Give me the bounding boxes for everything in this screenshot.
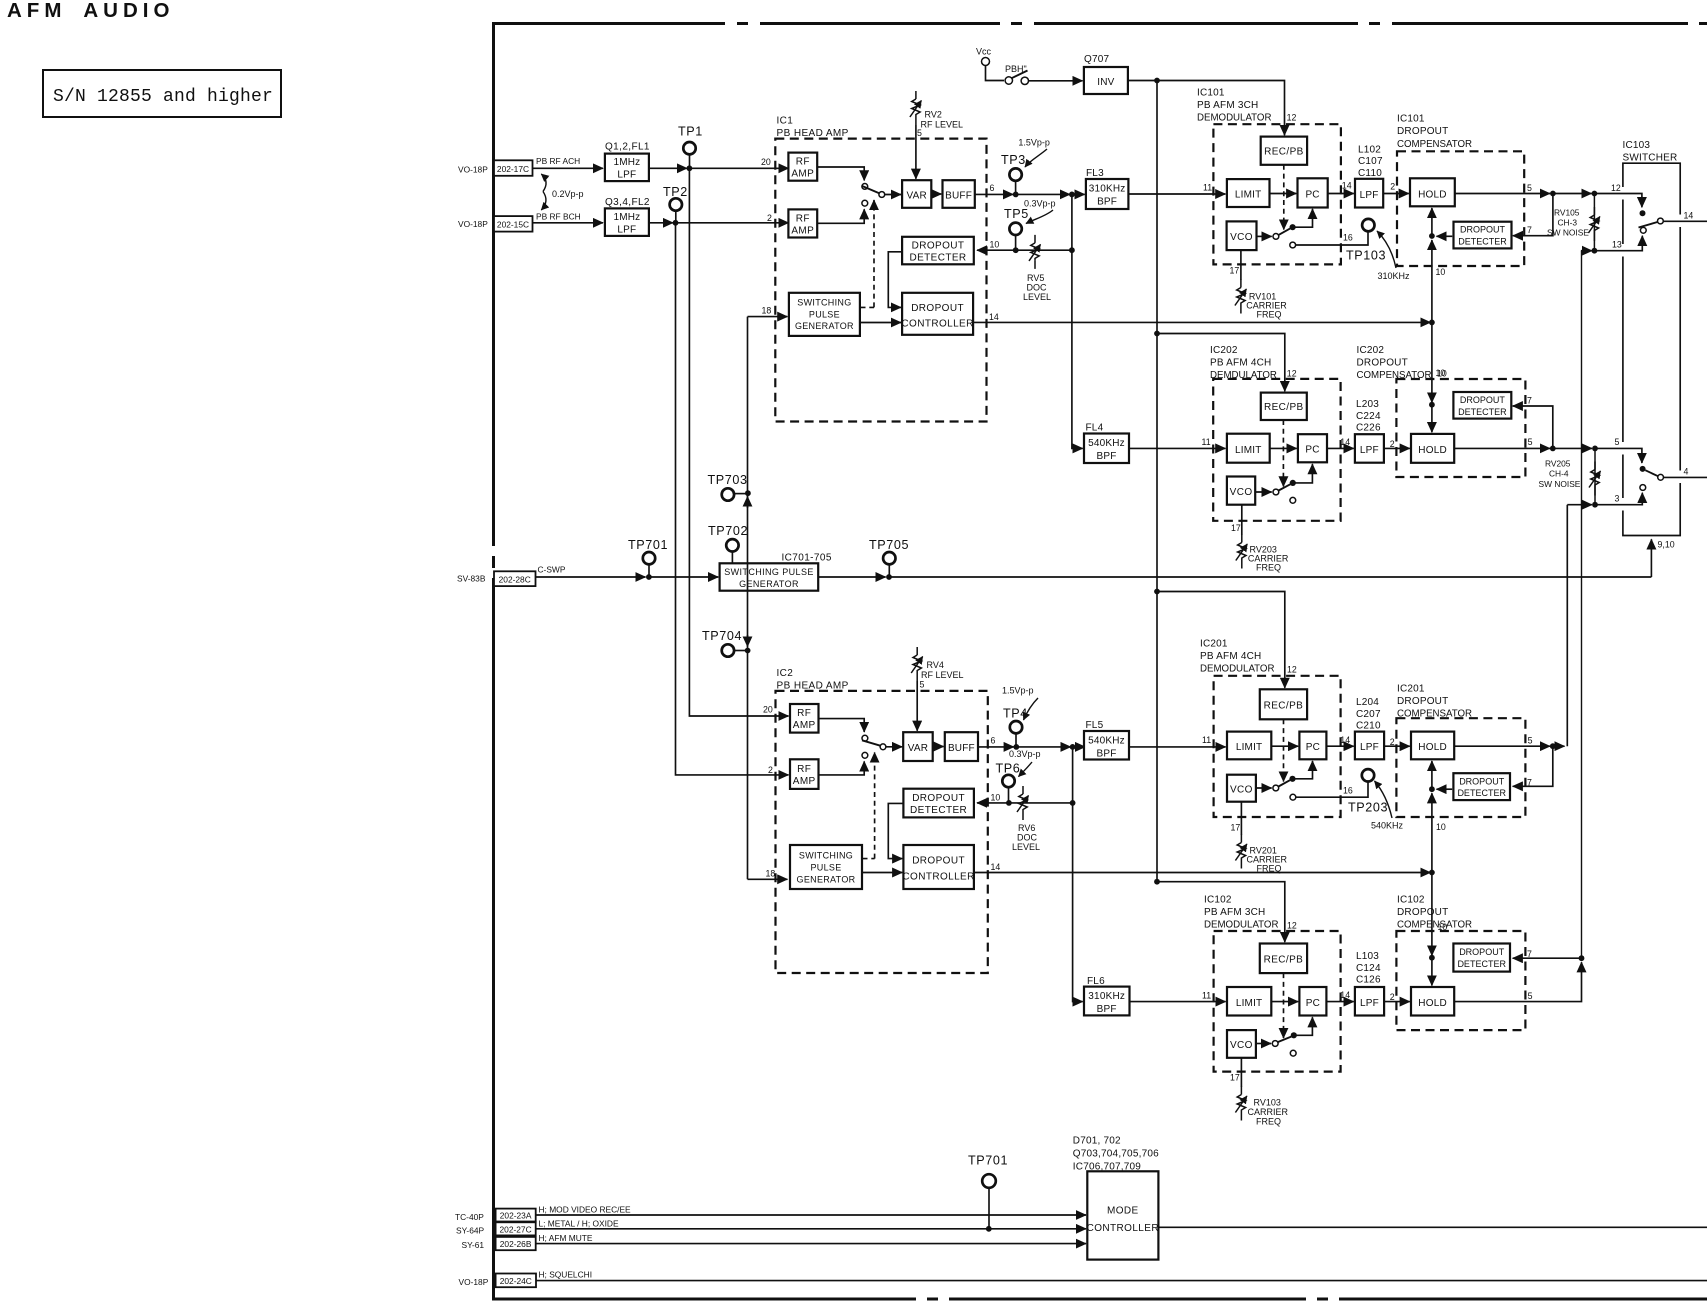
wire VCO to switch	[1257, 235, 1272, 237]
svg-text:C207: C207	[1356, 709, 1381, 720]
switch pole and arm	[879, 192, 885, 198]
filter LPF (IC202)	[1355, 434, 1384, 463]
wire VCO to switch	[1256, 787, 1272, 789]
block HOLD (IC202)	[1411, 434, 1454, 463]
wire branch to IC102 REC/PB	[1157, 882, 1285, 942]
svg-text:CONTROLLER: CONTROLLER	[902, 871, 974, 882]
node hold out A	[1550, 191, 1556, 197]
svg-text:FL5: FL5	[1086, 720, 1104, 731]
switch contact pin16	[1290, 794, 1296, 800]
switch contact (VCO side)	[1273, 785, 1279, 791]
svg-text:C107: C107	[1358, 156, 1383, 167]
svg-text:LPF: LPF	[1360, 445, 1379, 456]
node branch IC102	[1154, 879, 1160, 885]
node head1 output junction	[1069, 192, 1075, 198]
svg-text:2: 2	[767, 213, 772, 223]
wire PC to LPF	[1326, 1001, 1353, 1003]
svg-text:DROPOUT: DROPOUT	[912, 793, 965, 804]
wire detecter to controller loop (IC2)	[888, 803, 903, 858]
wire RF AMP B to switch contact	[817, 209, 864, 223]
svg-text:REC/PB: REC/PB	[1264, 701, 1304, 712]
switch CH-4 contact 3	[1640, 485, 1646, 491]
svg-text:CONTROLLER: CONTROLLER	[901, 319, 973, 330]
switch PBH''	[986, 66, 1005, 81]
detector DROPOUT DETECTER (IC1)	[902, 237, 974, 264]
svg-text:2: 2	[1390, 992, 1395, 1002]
wire pin7 to detecter	[1513, 406, 1553, 448]
IC201 PB AFM 4CH DEMODULATOR dashed box	[1214, 676, 1341, 817]
svg-text:DEMODULATOR: DEMODULATOR	[1204, 920, 1278, 931]
svg-text:BPF: BPF	[1096, 451, 1116, 462]
svg-text:SWITCHING: SWITCHING	[799, 851, 853, 861]
pot RV101 CARRIER FREQ	[1240, 250, 1242, 280]
svg-text:12: 12	[1287, 112, 1297, 122]
svg-text:L203: L203	[1356, 399, 1379, 410]
svg-text:Vcc: Vcc	[976, 47, 992, 57]
switch CH-3 contact 13	[1640, 227, 1646, 233]
svg-text:COMPENSATOR: COMPENSATOR	[1397, 920, 1472, 931]
svg-text:DROPOUT: DROPOUT	[912, 241, 965, 252]
svg-text:0.3Vp-p: 0.3Vp-p	[1009, 749, 1041, 759]
generator SWITCHING PULSE GENERATOR (IC2)	[790, 845, 862, 889]
svg-text:FREQ: FREQ	[1256, 1117, 1281, 1127]
svg-text:C110: C110	[1358, 168, 1382, 179]
pot RV6 DOC LEVEL	[1017, 786, 1029, 820]
S/N note box	[43, 70, 281, 117]
svg-text:PB HEAD AMP: PB HEAD AMP	[777, 681, 849, 692]
svg-text:C124: C124	[1356, 963, 1381, 974]
schematic border left (dash-dot)	[492, 24, 495, 1300]
svg-text:HOLD: HOLD	[1418, 190, 1447, 201]
svg-text:TP704: TP704	[702, 629, 742, 643]
svg-text:202-23A: 202-23A	[500, 1211, 532, 1221]
wire LPF2 to RF AMP pin 2	[649, 222, 673, 224]
svg-text:SWITCHING: SWITCHING	[797, 298, 851, 308]
svg-text:H; AFM MUTE: H; AFM MUTE	[539, 1233, 593, 1243]
svg-text:TP1: TP1	[678, 125, 703, 139]
wire HOLD output right and up riser	[1454, 962, 1581, 1001]
switch pole and arm	[880, 744, 886, 750]
node doc junction	[1069, 247, 1075, 253]
wire PC to LPF	[1328, 193, 1354, 195]
wire SPG to controller (IC2)	[862, 872, 902, 874]
svg-text:DROPOUT: DROPOUT	[1397, 696, 1448, 707]
wire pole to VAR	[886, 746, 902, 748]
wire hold bus down to IC202 node	[1431, 322, 1433, 402]
pot RV201 CARRIER FREQ	[1240, 802, 1242, 835]
block VCO (IC202)	[1227, 477, 1255, 505]
svg-text:CH-4: CH-4	[1549, 469, 1569, 479]
switch contact (VCO side)	[1273, 489, 1279, 495]
wire LIMIT to PC	[1270, 193, 1297, 195]
svg-text:11: 11	[1202, 990, 1211, 1000]
wire control into IC2 SPG pin 18	[748, 878, 788, 880]
svg-text:HOLD: HOLD	[1418, 445, 1447, 456]
node branch IC201	[1154, 589, 1160, 595]
svg-text:DROPOUT: DROPOUT	[912, 856, 965, 867]
dashed control REC/PB to switch	[1283, 719, 1285, 781]
pins 9,10 wire from sw pulse line	[1650, 539, 1652, 577]
wire branch to IC201 REC/PB	[1157, 592, 1285, 688]
svg-text:FREQ: FREQ	[1257, 864, 1282, 874]
svg-text:H; SQUELCHI: H; SQUELCHI	[539, 1270, 593, 1280]
svg-text:VO-18P: VO-18P	[458, 165, 488, 175]
node head2 output junction	[1070, 744, 1076, 750]
generator SWITCHING PULSE GENERATOR (IC1)	[789, 293, 860, 336]
svg-text:202-15C: 202-15C	[497, 220, 529, 230]
svg-text:LPF: LPF	[617, 170, 636, 181]
dashed control wire SPG to head switch (IC2)	[863, 753, 875, 859]
svg-text:13: 13	[1612, 240, 1622, 250]
block PC (IC202)	[1298, 434, 1327, 462]
svg-text:1.5Vp-p: 1.5Vp-p	[1002, 686, 1034, 696]
svg-text:10: 10	[990, 240, 1000, 250]
pot RV203 CARRIER FREQ	[1241, 505, 1243, 535]
svg-text:1MHz: 1MHz	[613, 157, 640, 168]
wire branch to IC202 REC/PB	[1157, 334, 1285, 392]
svg-text:IC202: IC202	[1210, 345, 1238, 356]
svg-text:L; METAL / H; OXIDE: L; METAL / H; OXIDE	[539, 1219, 619, 1229]
node TP704 junction	[745, 648, 751, 654]
wire mode input 3	[536, 1243, 1086, 1245]
wire detecter to controller loop	[888, 252, 902, 308]
svg-text:TC-40P: TC-40P	[455, 1212, 484, 1222]
dashed control wire SPG to head switch	[861, 200, 875, 307]
wire HOLD output to switcher pin 5	[1454, 447, 1550, 449]
svg-text:RV6: RV6	[1018, 823, 1035, 833]
controller DROPOUT CONTROLLER (IC2)	[903, 845, 974, 889]
svg-text:5: 5	[1527, 183, 1532, 193]
wire mode controller output	[1158, 1226, 1707, 1228]
switch CH-4: contact 5 dot	[1640, 466, 1646, 472]
node detecter out bottom	[1429, 402, 1435, 408]
wire pole to PC	[1293, 761, 1313, 779]
svg-text:PB AFM 4CH: PB AFM 4CH	[1200, 651, 1261, 662]
svg-text:IC101: IC101	[1197, 88, 1225, 99]
svg-text:TP701: TP701	[968, 1154, 1008, 1168]
node hold out (IC201)	[1550, 743, 1556, 749]
svg-text:TP5: TP5	[1004, 207, 1029, 221]
block REC/PB (IC202)	[1261, 393, 1307, 420]
svg-text:RV5: RV5	[1027, 273, 1044, 283]
svg-text:5: 5	[917, 128, 922, 138]
svg-text:20: 20	[761, 157, 771, 167]
svg-text:310KHz: 310KHz	[1088, 991, 1125, 1002]
svg-text:C210: C210	[1356, 721, 1381, 732]
svg-text:540KHz: 540KHz	[1088, 438, 1125, 449]
wire ACH input	[533, 167, 604, 169]
svg-text:IC102: IC102	[1204, 895, 1232, 906]
svg-text:17: 17	[1230, 1073, 1240, 1083]
svg-text:VO-18P: VO-18P	[458, 219, 488, 229]
svg-text:0.2Vp-p: 0.2Vp-p	[552, 189, 584, 199]
svg-text:INV: INV	[1097, 77, 1114, 88]
switch contact (VCO side)	[1272, 1041, 1278, 1047]
svg-text:11: 11	[1202, 437, 1211, 447]
svg-text:PB HEAD AMP: PB HEAD AMP	[777, 128, 849, 139]
svg-text:PB AFM 4CH: PB AFM 4CH	[1210, 358, 1271, 369]
svg-text:TP103: TP103	[1346, 249, 1386, 263]
wire mode input 2	[536, 1228, 1086, 1230]
svg-text:16: 16	[1343, 232, 1353, 242]
node controller feed (IC2)	[1429, 870, 1435, 876]
svg-text:FL3: FL3	[1086, 168, 1104, 179]
switch CH-4 arm	[1645, 470, 1658, 476]
wire head2 output drop to FL6	[1073, 747, 1083, 1002]
svg-text:LIMIT: LIMIT	[1235, 190, 1262, 201]
svg-text:RV205: RV205	[1545, 459, 1571, 469]
svg-text:L102: L102	[1358, 145, 1381, 156]
node detecter out (IC102)	[1429, 955, 1435, 961]
IC202 PB AFM 4CH DEMDULATOR dashed box	[1213, 379, 1340, 521]
controller DROPOUT CONTROLLER (IC1)	[902, 293, 973, 335]
switch pole dot and arm	[1289, 776, 1295, 782]
node detecter out top	[1429, 233, 1435, 239]
svg-text:CONTROLLER: CONTROLLER	[1087, 1223, 1159, 1234]
svg-text:IC201: IC201	[1397, 684, 1425, 695]
IC202 DROPOUT COMPENSATOR dashed box	[1396, 379, 1525, 477]
svg-text:TP2: TP2	[663, 185, 688, 199]
svg-text:5: 5	[920, 680, 925, 690]
wire LIMIT to PC	[1271, 745, 1298, 747]
svg-text:H; MOD VIDEO REC/EE: H; MOD VIDEO REC/EE	[539, 1204, 632, 1214]
svg-text:FREQ: FREQ	[1257, 310, 1282, 320]
switch contact A	[862, 735, 868, 741]
wire pin16 to TP103	[1296, 232, 1368, 245]
pot RV5 DOC LEVEL	[1029, 235, 1041, 269]
wire pole to VAR	[885, 194, 901, 196]
controller MODE CONTROLLER	[1087, 1171, 1158, 1259]
node branch IC202	[1154, 331, 1160, 337]
svg-text:PULSE: PULSE	[810, 863, 841, 873]
svg-text:CH-3: CH-3	[1558, 218, 1578, 228]
node INV output junction	[1154, 78, 1160, 84]
svg-text:BPF: BPF	[1096, 748, 1116, 759]
block HOLD (IC201)	[1411, 732, 1454, 760]
block PC (IC102)	[1299, 987, 1326, 1016]
schematic border bottom (dash-dot)	[492, 1298, 1707, 1301]
bus head switch control vertical	[747, 317, 749, 880]
detector DROPOUT DETECTER (IC101 comp)	[1454, 222, 1512, 249]
wire pole to PC	[1293, 464, 1313, 483]
svg-text:202-26B: 202-26B	[500, 1239, 532, 1249]
svg-text:SV-83B: SV-83B	[457, 574, 486, 584]
svg-text:20: 20	[763, 705, 773, 715]
block LIMIT (IC202)	[1227, 434, 1270, 463]
svg-text:LEVEL: LEVEL	[1023, 292, 1051, 302]
node controller feed	[1429, 320, 1435, 326]
amp RF AMP (IC2 A)	[790, 704, 819, 733]
node detecter out (IC201)	[1429, 786, 1435, 792]
svg-text:540KHz: 540KHz	[1088, 736, 1125, 747]
svg-text:RV4: RV4	[927, 660, 944, 670]
wire doc line into detecter	[977, 249, 1072, 251]
svg-text:TP701: TP701	[628, 538, 668, 552]
node TP1 junction	[687, 165, 693, 171]
svg-text:540KHz: 540KHz	[1371, 821, 1404, 831]
svg-text:17: 17	[1231, 823, 1241, 833]
svg-text:PC: PC	[1305, 445, 1319, 456]
node TP701 junction	[646, 574, 652, 580]
svg-text:2: 2	[1390, 182, 1395, 192]
svg-text:RV105: RV105	[1554, 208, 1580, 218]
svg-text:C226: C226	[1356, 423, 1381, 434]
svg-text:3: 3	[1615, 494, 1620, 504]
svg-text:L103: L103	[1356, 951, 1379, 962]
svg-text:PULSE: PULSE	[809, 309, 840, 319]
svg-text:IC1: IC1	[777, 116, 794, 127]
svg-text:310KHz: 310KHz	[1089, 184, 1126, 195]
wire detecter output left	[1437, 235, 1453, 237]
wire bus into IC102 HOLD	[1431, 958, 1433, 986]
svg-text:VCO: VCO	[1230, 784, 1253, 795]
amp BUFF	[943, 180, 975, 208]
switch contact B	[862, 200, 868, 206]
svg-text:C224: C224	[1356, 411, 1381, 422]
svg-text:TP705: TP705	[869, 538, 909, 552]
node RV205 bottom	[1592, 502, 1598, 508]
svg-text:BUFF: BUFF	[945, 190, 972, 201]
svg-text:IC701-705: IC701-705	[782, 553, 832, 564]
svg-text:16: 16	[1343, 786, 1353, 796]
block HOLD (IC101)	[1410, 178, 1455, 206]
wire RF AMP A to switch contact	[819, 719, 865, 732]
switch CH-4 pole	[1658, 474, 1664, 480]
IC1 PB HEAD AMP dashed box	[775, 139, 986, 422]
block LIMIT (IC102)	[1227, 987, 1271, 1016]
wire LPF to HOLD	[1384, 447, 1410, 449]
svg-text:DROPOUT: DROPOUT	[911, 303, 964, 314]
wire pin7 to detecter	[1513, 194, 1553, 236]
svg-text:C-SWP: C-SWP	[538, 565, 566, 575]
switch contact B	[862, 752, 868, 758]
wire PC to LPF	[1326, 745, 1353, 747]
svg-text:12: 12	[1287, 921, 1297, 931]
svg-text:18: 18	[762, 306, 772, 316]
node hold out A	[1550, 446, 1556, 452]
wire pin 3 line	[1567, 504, 1592, 506]
wire main output BUFF to FL3	[975, 193, 1013, 195]
svg-text:SWITCHING PULSE: SWITCHING PULSE	[724, 567, 814, 577]
svg-text:17: 17	[1230, 266, 1240, 276]
wire hold bus mid segment (lower)	[1431, 793, 1433, 872]
svg-text:DEMODULATOR: DEMODULATOR	[1200, 664, 1274, 675]
svg-text:VCO: VCO	[1230, 487, 1253, 498]
wire switch to INV	[1029, 80, 1083, 82]
switch CH-3 arm	[1639, 222, 1658, 228]
block PC (IC201)	[1299, 732, 1326, 760]
svg-text:17: 17	[1231, 523, 1241, 533]
wire mode input 1	[536, 1214, 1086, 1216]
amp RF AMP (B ch)	[788, 209, 817, 237]
svg-text:SWITCHER: SWITCHER	[1623, 153, 1678, 164]
block PC (IC101)	[1298, 178, 1328, 207]
svg-text:10: 10	[1436, 267, 1446, 277]
svg-text:202-27C: 202-27C	[500, 1224, 532, 1234]
switch pole dot and arm	[1291, 1032, 1297, 1038]
switch open contact pin16	[1290, 1050, 1296, 1056]
svg-text:RF LEVEL: RF LEVEL	[921, 120, 964, 130]
IC102 PB AFM 3CH DEMODULATOR dashed box	[1214, 931, 1341, 1072]
wire pin18 into SPG	[748, 316, 788, 318]
svg-text:VCO: VCO	[1230, 1040, 1253, 1051]
svg-text:5: 5	[1528, 736, 1533, 746]
svg-text:SW NOISE: SW NOISE	[1539, 479, 1581, 489]
svg-text:FL4: FL4	[1086, 423, 1104, 434]
svg-text:1.5Vp-p: 1.5Vp-p	[1018, 137, 1050, 147]
svg-text:COMPENSATOR: COMPENSATOR	[1357, 370, 1432, 381]
svg-text:HOLD: HOLD	[1418, 742, 1447, 753]
svg-text:AFM AUDIO: AFM AUDIO	[7, 0, 174, 22]
svg-text:COMPENSATOR: COMPENSATOR	[1397, 139, 1472, 150]
wire VAR to BUFF	[933, 746, 944, 748]
svg-text:14: 14	[1684, 210, 1694, 220]
svg-text:LIMIT: LIMIT	[1236, 742, 1263, 753]
node TP6 junction	[1006, 800, 1012, 806]
svg-text:MODE: MODE	[1107, 1205, 1139, 1216]
wire LPF1 to RF AMP pin 20	[649, 167, 687, 169]
wire LIMIT to PC	[1271, 1001, 1298, 1003]
svg-text:DEMODULATOR: DEMODULATOR	[1197, 113, 1271, 124]
svg-text:14: 14	[991, 862, 1001, 872]
IC101 DROPOUT COMPENSATOR dashed box	[1397, 151, 1524, 266]
node TP4 junction	[1013, 744, 1019, 750]
wire controller pin14 to hold bus	[973, 321, 1430, 323]
block LIMIT (IC201)	[1227, 732, 1271, 760]
svg-text:IC201: IC201	[1200, 639, 1228, 650]
node TP3 junction	[1013, 192, 1019, 198]
wire main output BUFF to FL5	[978, 746, 1014, 748]
svg-text:PC: PC	[1306, 742, 1320, 753]
node TP701 junction (bottom)	[986, 1226, 992, 1232]
svg-text:PB AFM 3CH: PB AFM 3CH	[1204, 907, 1265, 918]
svg-text:VAR: VAR	[906, 190, 926, 201]
wire squelch line	[536, 1280, 1707, 1282]
svg-text:10: 10	[1437, 369, 1447, 379]
svg-text:PBH": PBH"	[1005, 64, 1027, 74]
svg-text:LPF: LPF	[1360, 742, 1379, 753]
svg-text:5: 5	[1528, 991, 1533, 1001]
node hold out B	[1592, 446, 1598, 452]
svg-text:BUFF: BUFF	[948, 743, 975, 754]
svg-text:DETECTER: DETECTER	[1458, 237, 1507, 247]
wire LPF to HOLD	[1383, 193, 1409, 195]
filter LPF (IC101)	[1355, 179, 1383, 208]
svg-text:IC2: IC2	[777, 668, 794, 679]
wire pin7 to detecter	[1513, 746, 1553, 786]
amp VAR	[902, 180, 931, 208]
pot RV2 RF LEVEL	[915, 125, 917, 179]
dashed control REC/PB to demod switch	[1283, 165, 1285, 230]
svg-text:C126: C126	[1356, 975, 1381, 986]
svg-text:GENERATOR: GENERATOR	[797, 875, 856, 885]
svg-text:TP6: TP6	[996, 762, 1021, 776]
svg-text:SY-61: SY-61	[462, 1240, 485, 1250]
node riser detecter junction	[1579, 955, 1585, 961]
svg-text:14: 14	[1340, 437, 1350, 447]
riser IC201 output to switcher pin 3	[1566, 505, 1568, 747]
node RV105 bottom	[1592, 248, 1598, 254]
block HOLD (IC102)	[1411, 987, 1454, 1016]
wire detecter input from riser	[1513, 957, 1582, 959]
svg-text:202-24C: 202-24C	[500, 1276, 532, 1286]
svg-text:DETECTER: DETECTER	[909, 253, 966, 264]
svg-text:7: 7	[1527, 395, 1532, 405]
svg-text:LPF: LPF	[1360, 998, 1379, 1009]
wire hold bus mid segment	[1431, 240, 1433, 322]
svg-text:9,10: 9,10	[1658, 540, 1675, 550]
switch contact (VCO side)	[1273, 234, 1279, 240]
